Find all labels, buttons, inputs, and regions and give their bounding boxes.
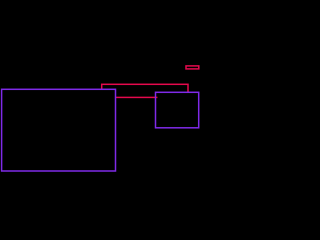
small purple rectangle [156, 92, 199, 128]
canvas background [0, 0, 200, 200]
red overhang segment at small purple rectangle left edge [156, 96, 157, 98]
small red rectangle [186, 66, 199, 69]
red rectangle (back layer) [102, 84, 188, 97]
large purple rectangle [2, 89, 116, 171]
